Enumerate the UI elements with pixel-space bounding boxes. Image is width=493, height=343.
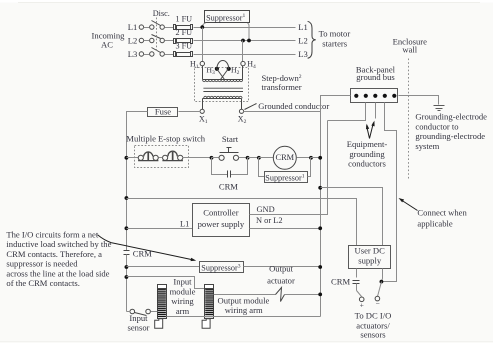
suppressor 3	[200, 262, 244, 273]
output actuator break symbol	[276, 288, 285, 302]
disconnect switch pole L1	[139, 21, 164, 30]
wire rail to controller L1	[127, 228, 193, 230]
wire CRM to + terminal	[356, 284, 358, 291]
junction suppressor left	[257, 156, 261, 160]
wire suppressor right to L2	[248, 23, 250, 41]
svg-text:transformer: transformer	[262, 82, 302, 92]
wire junction to - terminal	[378, 282, 382, 297]
ground bus lug 3	[373, 94, 377, 98]
svg-text:N or L2: N or L2	[256, 216, 283, 225]
svg-text:Suppressor1: Suppressor1	[206, 13, 245, 22]
fuse 3FU	[174, 41, 193, 56]
wire L1 down to H1	[202, 28, 204, 62]
ground bus lug 2	[364, 94, 368, 98]
tap H3	[215, 67, 219, 71]
label Input module wiring arm	[170, 277, 196, 316]
arrow to conductor B	[370, 123, 374, 139]
primary winding	[203, 80, 243, 82]
wire controller N to right rail	[250, 228, 321, 230]
label Back-panel ground bus	[356, 64, 396, 82]
wire to start button	[212, 157, 219, 159]
svg-text:Fuse: Fuse	[155, 106, 171, 116]
svg-text:1 FU: 1 FU	[175, 15, 192, 24]
svg-text:grounding: grounding	[349, 149, 385, 159]
output module wiring arm foot	[202, 319, 210, 329]
terminal X2	[239, 109, 243, 113]
wire H4 to primary	[242, 66, 244, 80]
svg-text:AC: AC	[101, 40, 113, 50]
wire suppressor left to L1	[202, 23, 205, 27]
wire DC+ output	[356, 269, 358, 278]
terminal H4	[241, 61, 245, 65]
wire to CRM coil	[259, 157, 274, 159]
svg-text:Disc.: Disc.	[153, 9, 170, 18]
secondary winding	[203, 96, 243, 98]
svg-text:across the line at the load si: across the line at the load side	[6, 268, 109, 278]
junction rail/user-dc hot	[125, 196, 129, 200]
note text	[6, 229, 111, 288]
disconnect switch pole L3	[139, 48, 164, 57]
ground bus lug 5	[392, 94, 396, 98]
svg-text:User DC: User DC	[355, 246, 386, 256]
junction rail/N	[318, 226, 322, 230]
label Output actuator	[267, 264, 295, 286]
wire suppressor 3 to right rail	[244, 266, 321, 268]
label Connect when applicable	[417, 208, 467, 229]
back-panel ground bus bar	[351, 89, 398, 103]
svg-text:L1: L1	[128, 22, 138, 32]
wire L3 to motor starters	[194, 54, 296, 56]
svg-text:conductors: conductors	[348, 159, 386, 169]
multiple E-stop dashed box	[135, 146, 189, 168]
junction rail/actuator	[318, 293, 322, 297]
svg-text:Grounded conductor: Grounded conductor	[258, 101, 329, 111]
svg-text:L3: L3	[128, 49, 138, 59]
wire H2 to winding (crossing)	[221, 69, 229, 80]
tap H2	[227, 67, 231, 71]
equipment-grounding conductor stub (lug2)	[328, 103, 366, 121]
svg-text:grounding-electrode: grounding-electrode	[415, 131, 485, 141]
user DC supply	[349, 246, 391, 269]
svg-text:Controller: Controller	[203, 208, 238, 218]
wire disconnect to fuse 3FU	[165, 54, 174, 56]
label Incoming AC	[92, 31, 126, 50]
input module wiring arm foot	[155, 319, 163, 329]
wire L2 down to H4	[242, 41, 244, 62]
input sensor switch	[127, 309, 151, 315]
wire rail to output module arm	[127, 277, 206, 289]
junction rail/suppressor3	[125, 265, 129, 269]
wire junction to suppressor branch	[248, 157, 259, 159]
terminal H1	[200, 61, 204, 65]
junction suppressor right	[309, 156, 313, 160]
label To DC I/O actuators/sensors	[355, 311, 392, 340]
svg-text:Suppressor1: Suppressor1	[265, 173, 304, 182]
label Step-down transformer	[262, 73, 302, 92]
label Equipment-grounding conductors	[347, 139, 388, 169]
svg-text:L1: L1	[298, 22, 308, 32]
svg-text:CRM: CRM	[133, 249, 152, 259]
relay coil CRM	[273, 146, 296, 169]
junction rung/right rail	[318, 156, 322, 160]
label To motor starters	[319, 28, 351, 48]
wire input arm return	[167, 316, 321, 318]
transformer core	[203, 88, 243, 91]
wire ground bus to grounding electrode	[399, 96, 439, 105]
svg-text:of the CRM contacts.: of the CRM contacts.	[6, 278, 80, 288]
svg-text:suppressor is needed: suppressor is needed	[6, 259, 78, 269]
svg-text:+: +	[360, 301, 364, 310]
CRM seal-in contact branch	[212, 158, 228, 175]
controller power supply U1	[193, 204, 250, 237]
wire left rail to user DC supply (hot)	[127, 199, 357, 246]
wire L1 to disconnect	[140, 27, 144, 29]
transformer T1 dashed enclosure	[195, 68, 249, 102]
wire H1 to primary	[202, 66, 204, 80]
suppressor 2 branch left	[259, 158, 265, 177]
svg-text:ground bus: ground bus	[356, 72, 395, 82]
svg-text:actuator: actuator	[267, 275, 295, 285]
svg-text:Output module: Output module	[217, 295, 269, 305]
svg-text:CRM: CRM	[331, 276, 350, 286]
wire actuator to right rail	[285, 294, 321, 296]
svg-text:conductor to: conductor to	[415, 121, 458, 131]
svg-text:module: module	[170, 286, 196, 296]
wire L2 to disconnect	[140, 40, 144, 42]
junction L1/suppressor/H1	[200, 25, 204, 29]
wire disconnect to fuse 1FU	[165, 27, 174, 29]
junction rail/E-stop rung	[125, 156, 129, 160]
junction L2/suppressor	[247, 39, 251, 43]
svg-text:Output: Output	[269, 264, 293, 274]
wire coil to junction	[297, 157, 311, 159]
svg-text:3 FU: 3 FU	[175, 41, 192, 50]
output module wiring arm bar	[205, 285, 214, 319]
arrow connect when applicable	[401, 200, 418, 211]
wire secondary to X2	[241, 99, 243, 110]
terminal X1	[200, 109, 204, 113]
svg-text:system: system	[415, 141, 439, 151]
svg-text:Grounding-electrode: Grounding-electrode	[415, 111, 487, 121]
left rail	[126, 158, 128, 251]
wire L3 to disconnect	[140, 54, 144, 56]
wire rail to E-stop	[127, 157, 139, 159]
junction start right	[246, 156, 250, 160]
svg-text:L1: L1	[180, 219, 189, 228]
wire disconnect to fuse 2FU	[165, 40, 174, 42]
wire H3 to winding (crossing)	[217, 69, 225, 80]
svg-text:supply: supply	[358, 256, 382, 266]
fuse 1FU	[174, 15, 193, 30]
svg-text:The I/O circuits form a net: The I/O circuits form a net	[6, 229, 98, 239]
equipment-grounding conductor stub (lug3)	[375, 103, 377, 119]
junction right rail/suppressor3	[318, 265, 322, 269]
suppressor 2 (coil suppressor)	[265, 172, 308, 183]
svg-text:applicable: applicable	[417, 218, 452, 228]
ground bus lug 4	[383, 94, 387, 98]
wire DC- output	[382, 269, 384, 279]
svg-text:arm: arm	[176, 306, 190, 316]
svg-text:L3: L3	[298, 49, 308, 59]
disconnect switch pole L2	[139, 35, 164, 43]
svg-text:Connect when: Connect when	[417, 208, 467, 218]
label Input sensor	[128, 313, 150, 333]
svg-text:L2: L2	[128, 35, 138, 45]
label grounding-electrode conductor	[415, 111, 487, 150]
enclosure wall dashed line	[408, 59, 410, 181]
start pushbutton (NO)	[219, 148, 239, 161]
svg-text:wiring arm: wiring arm	[225, 305, 263, 315]
svg-text:sensors: sensors	[360, 330, 386, 340]
wire right rail to user DC supply (neutral)	[321, 188, 383, 246]
wire X1 to fuse	[179, 111, 201, 113]
junction start left	[210, 156, 214, 160]
wire secondary to X1	[202, 99, 204, 110]
disconnect mechanical link (dashed)	[156, 18, 158, 53]
ground bus lug 1	[354, 94, 358, 98]
wire E-stop to start junction	[183, 157, 212, 159]
svg-text:L2: L2	[298, 35, 308, 45]
arrow to conductor A	[367, 126, 370, 139]
junction DC- / equipment ground	[380, 280, 384, 284]
wire L1 to motor starters	[194, 27, 296, 29]
junction right rail/user-dc neutral	[318, 186, 322, 190]
label Output module wiring arm	[217, 295, 269, 315]
CRM master contact (rail)	[124, 251, 130, 255]
svg-text:power supply: power supply	[198, 219, 245, 229]
wire to right rail	[311, 157, 321, 159]
wire start to junction	[239, 157, 248, 159]
E-stop switch 2 (NC mushroom)	[162, 151, 183, 160]
wire fuse to left rail	[127, 112, 148, 158]
svg-text:CRM: CRM	[219, 182, 238, 192]
wire between E-stops	[159, 157, 163, 159]
terminal +	[359, 297, 364, 302]
CRM contact (DC output)	[353, 281, 360, 284]
left rail lower	[126, 255, 128, 312]
svg-text:CRM: CRM	[275, 153, 294, 162]
wire sensor to input arm	[151, 311, 158, 313]
svg-text:Suppressor3: Suppressor3	[201, 263, 240, 272]
ground symbol (grounding electrode)	[434, 106, 445, 111]
fuse (control)	[148, 106, 178, 116]
svg-text:sensor: sensor	[128, 322, 150, 332]
svg-text:Start: Start	[222, 134, 239, 144]
svg-text:inductive load switched by the: inductive load switched by the	[6, 239, 111, 249]
leader grounded conductor	[245, 104, 257, 110]
svg-text:starters: starters	[322, 38, 347, 48]
wire controller GND to ground bus	[250, 121, 328, 215]
fuse 2FU	[174, 28, 193, 44]
svg-text:Equipment-: Equipment-	[347, 139, 388, 149]
right rail (grounded/neutral)	[320, 96, 322, 317]
junction rail/output module feed	[125, 275, 129, 279]
svg-text:Input: Input	[173, 277, 192, 287]
wire L2 to motor starters	[194, 40, 296, 42]
E-stop switch 1 (NC mushroom)	[138, 152, 158, 161]
svg-text:To motor: To motor	[319, 28, 351, 38]
svg-text:Input: Input	[129, 313, 148, 323]
equipment-grounding conductor (lug4) long run	[383, 103, 397, 282]
svg-text:wiring: wiring	[171, 296, 194, 306]
wire output arm to actuator	[214, 294, 276, 296]
leader note to suppressor 3	[98, 235, 193, 260]
wire neutral bond: bus to X2 rail	[321, 96, 351, 112]
junction rail/controller L1	[125, 226, 129, 230]
svg-text:To DC I/O: To DC I/O	[355, 311, 392, 321]
svg-text:2 FU: 2 FU	[175, 28, 192, 37]
label Enclosure wall	[393, 36, 428, 54]
terminal -	[375, 296, 380, 301]
svg-text:Multiple E-stop switch: Multiple E-stop switch	[126, 134, 205, 144]
svg-text:−: −	[375, 299, 379, 308]
svg-text:wall: wall	[402, 45, 417, 55]
svg-text:CRM contacts. Therefore, a: CRM contacts. Therefore, a	[6, 249, 102, 259]
CRM contact (seal-in)	[228, 171, 231, 178]
input module wiring arm bar	[158, 285, 167, 319]
wire rail to suppressor 3	[127, 266, 200, 268]
suppressor 1 (line suppressor)	[205, 11, 250, 23]
svg-text:GND: GND	[257, 205, 275, 214]
junction L2/H4	[241, 39, 245, 43]
suppressor 2 branch right	[308, 158, 311, 177]
wire X2 to right rail	[244, 111, 321, 113]
jumper arc H3-H2	[217, 61, 229, 69]
brace to motor starters	[308, 21, 316, 58]
